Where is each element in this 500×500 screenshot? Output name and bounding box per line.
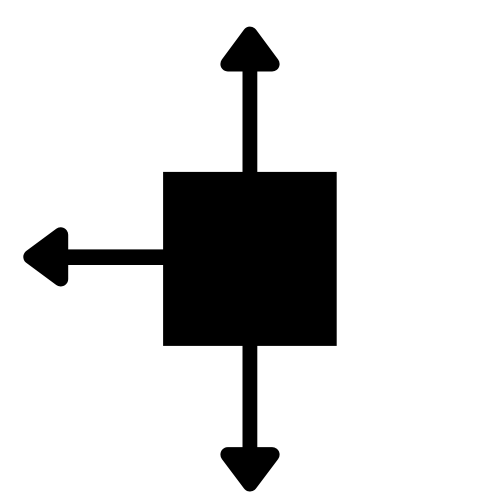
- central square: [163, 172, 337, 346]
- up arrowhead: [228, 34, 272, 64]
- left arrowhead: [31, 235, 61, 279]
- down arrowhead: [228, 455, 272, 484]
- down arrow stem: [243, 345, 258, 449]
- left arrow stem: [66, 249, 164, 265]
- up arrow stem: [243, 68, 258, 173]
